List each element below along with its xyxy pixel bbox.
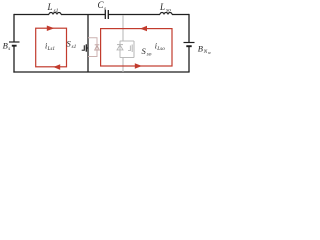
- wire grey feed top (Sso branch): [122, 15, 124, 41]
- svg-text:Ls1: Ls1: [47, 46, 56, 52]
- svg-text:so: so: [166, 8, 171, 14]
- svg-text:B: B: [3, 40, 8, 50]
- transistor Ss1 symbol: [85, 44, 87, 51]
- wire top rail right of cap: [108, 14, 160, 16]
- wire right vertical lower: [188, 47, 190, 73]
- svg-text:so: so: [147, 52, 152, 58]
- wire left vertical lower: [13, 46, 15, 73]
- wire top rail right: [172, 14, 189, 16]
- svg-text:L: L: [47, 2, 53, 12]
- inductor Lso: [160, 13, 172, 15]
- inductor Ls1: [49, 13, 61, 15]
- node red loop 2 (current path iLso): [101, 29, 172, 66]
- battery Bs: [9, 41, 20, 43]
- svg-text:s: s: [104, 6, 106, 12]
- transistor Sso symbol: [133, 41, 135, 58]
- svg-text:w: w: [208, 50, 211, 55]
- node red loop 1 (current path iLs1): [36, 28, 67, 67]
- transistor Ss1 branch wire: [87, 15, 89, 73]
- wire left vertical: [13, 14, 15, 42]
- node bottom connector of Sso pair: [120, 57, 134, 59]
- wire grey feed bottom: [122, 58, 124, 73]
- capacitor Cs: [105, 10, 108, 19]
- wire top rail: [14, 14, 49, 16]
- diode D2 (body diode of Sso): [119, 41, 121, 58]
- svg-text:B: B: [198, 44, 203, 54]
- diode D1 (body diode of Ss1): [88, 38, 97, 57]
- battery BNw: [184, 42, 195, 44]
- svg-text:s1: s1: [54, 8, 59, 14]
- svg-text:N: N: [203, 49, 208, 55]
- svg-text:L: L: [159, 2, 165, 12]
- wire right vertical: [188, 14, 190, 42]
- svg-text:Lso: Lso: [156, 46, 165, 52]
- wire top rail middle: [61, 14, 105, 16]
- svg-text:s1: s1: [72, 44, 77, 50]
- svg-text:s: s: [8, 46, 10, 52]
- wire bottom rail: [13, 71, 189, 73]
- node top connector of Sso pair: [120, 40, 134, 42]
